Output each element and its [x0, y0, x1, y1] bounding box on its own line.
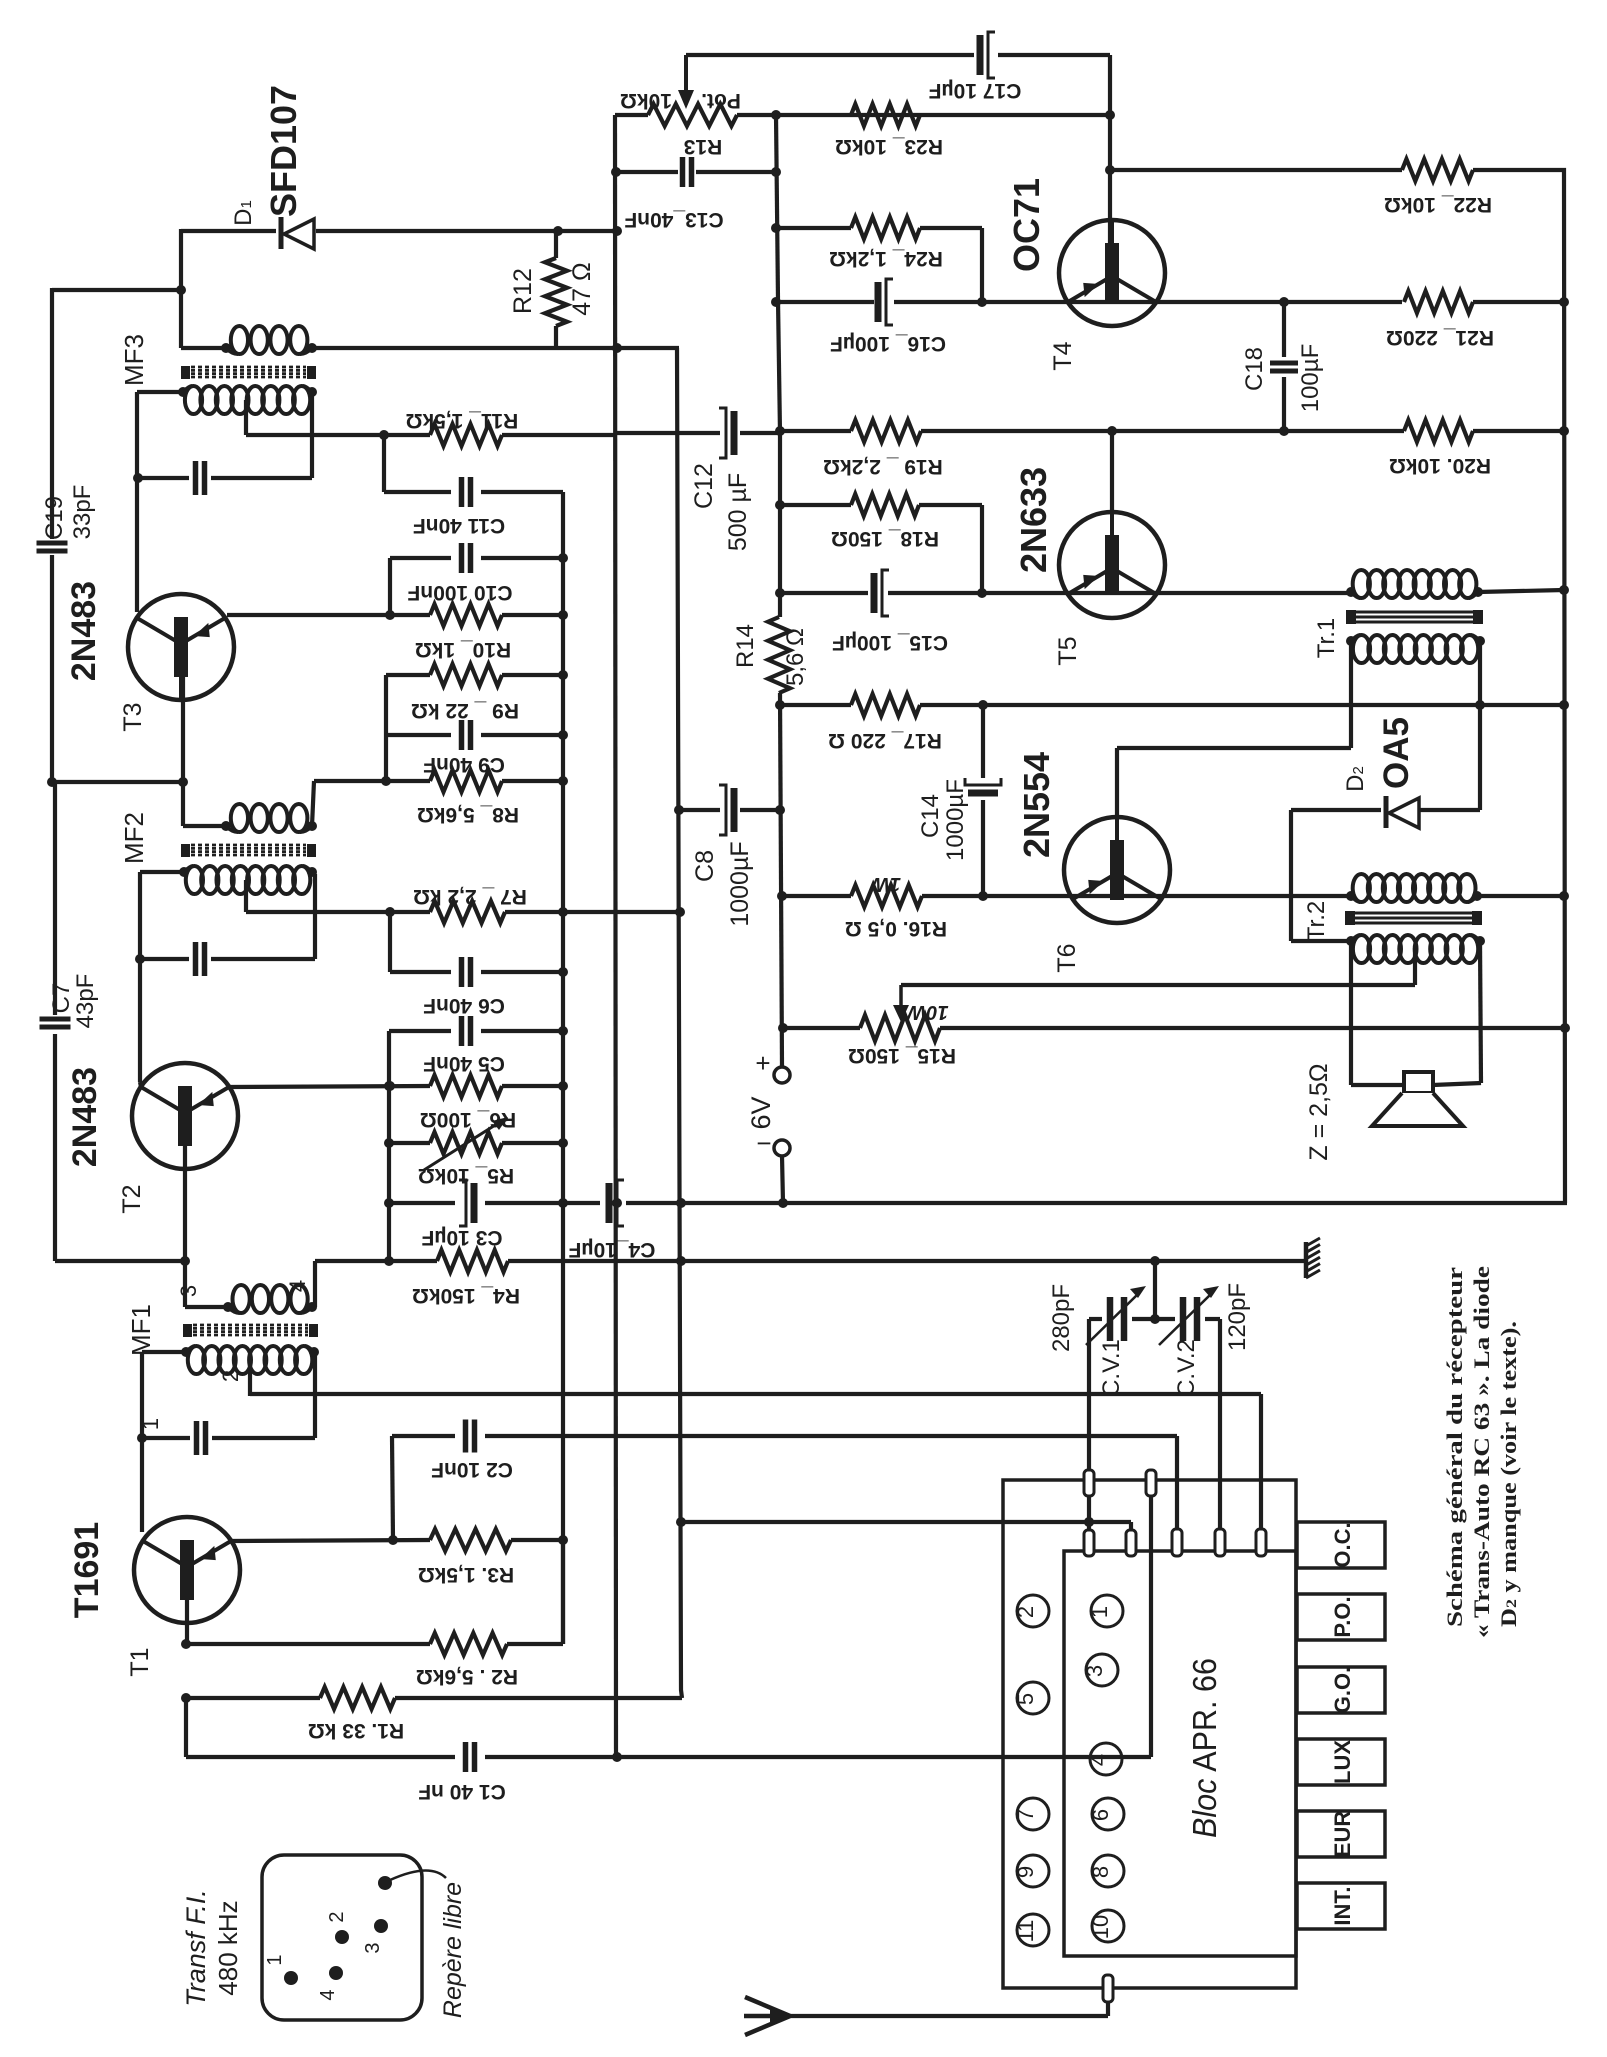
wire C11 bracket — [384, 435, 563, 492]
wire MF3 primary out — [312, 343, 679, 353]
transformer Tr2 label — [1303, 901, 1330, 941]
svg-text:10kΩ: 10kΩ — [620, 89, 672, 112]
wire y1396 — [250, 1394, 1261, 1530]
wire MF2 prim left — [183, 824, 226, 828]
label C1 — [418, 1780, 506, 1803]
label T6 — [1053, 943, 1081, 972]
label C14 — [917, 779, 969, 861]
wire R16 row — [782, 894, 1351, 898]
svg-text:4: 4 — [1086, 1754, 1111, 1766]
svg-text:R3. 1,5kΩ: R3. 1,5kΩ — [418, 1563, 514, 1586]
wire pot row right — [737, 110, 1110, 120]
svg-text:R23_ 10kΩ: R23_ 10kΩ — [835, 135, 943, 158]
bloc inner box — [1064, 1551, 1296, 1956]
wire R24 row — [771, 223, 982, 302]
capacitor C8 — [719, 785, 734, 835]
svg-text:Tr.1: Tr.1 — [1313, 618, 1340, 658]
wire C7 top — [47, 777, 57, 1015]
wire bus x781 mid — [775, 693, 788, 1067]
transf fi box — [262, 1855, 422, 2020]
wire R3 row — [230, 1535, 563, 1545]
wire MF1 sec left — [137, 1352, 186, 1532]
label C15 — [832, 631, 948, 654]
svg-text:R17_ 220 Ω: R17_ 220 Ω — [828, 729, 942, 752]
label C12 — [690, 463, 752, 551]
svg-text:LUX: LUX — [1330, 1740, 1355, 1784]
svg-text:6: 6 — [1088, 1809, 1113, 1821]
wire R18 row — [780, 505, 982, 593]
transformer MF3 label — [119, 334, 149, 386]
resistor R1 — [320, 1687, 395, 1709]
wire MF3 cap row — [137, 393, 312, 478]
wire CV1 down — [1084, 1319, 1094, 1551]
wire C19 column lower — [50, 555, 54, 782]
resistor R3 — [430, 1529, 511, 1551]
label R23 — [835, 135, 943, 158]
svg-text:R18_ 150Ω: R18_ 150Ω — [831, 527, 939, 550]
svg-text:2N483: 2N483 — [65, 581, 103, 681]
wire C10 row — [390, 558, 563, 615]
label Pot — [620, 89, 741, 112]
svg-text:9: 9 — [1013, 1866, 1038, 1878]
wire C9 row — [386, 733, 563, 737]
label D1 — [230, 200, 257, 226]
wire D2 branch — [1478, 705, 1482, 810]
wire Tr1 sec left — [1349, 641, 1353, 748]
svg-text:R19 _ 2,2kΩ: R19 _ 2,2kΩ — [823, 455, 943, 478]
wire R3 to C2 — [392, 1436, 393, 1540]
capacitor C16 — [878, 279, 893, 325]
resistor R11 — [430, 424, 502, 446]
wire MF1 prim left — [185, 1305, 228, 1309]
wire R12 top lead — [554, 231, 558, 258]
resistor R16 — [851, 885, 922, 907]
transformer Tr1 secondary — [1346, 635, 1485, 663]
svg-text:−: − — [756, 1128, 771, 1158]
wire T1 base — [185, 1600, 189, 1644]
speaker — [1372, 1072, 1463, 1126]
transformer Tr1 label — [1313, 618, 1340, 658]
label R16 1W — [869, 873, 901, 895]
resistor R12 — [545, 258, 567, 326]
bloc pin b — [1146, 1470, 1156, 1496]
svg-text:2N633: 2N633 — [1013, 467, 1054, 573]
wire R11 row — [246, 430, 616, 440]
wire MF3 sec left — [137, 390, 183, 394]
svg-text:2: 2 — [218, 1370, 243, 1382]
svg-text:C17 10µF: C17 10µF — [929, 79, 1022, 102]
wire bus y1203 — [389, 1198, 1567, 1208]
wire C8 row — [679, 808, 780, 812]
transistor T2 — [132, 1063, 238, 1169]
capacitor C3 — [459, 1180, 474, 1226]
label 2N554 — [1016, 752, 1057, 858]
transf pin5 — [378, 1870, 446, 1890]
label T4 — [1049, 341, 1077, 370]
transformer MF2 core — [181, 844, 316, 857]
switch LUX — [1297, 1739, 1385, 1785]
resistor R15 — [860, 1015, 940, 1041]
svg-text:100µF: 100µF — [1297, 344, 1324, 413]
svg-text:R9 _ 22 kΩ: R9 _ 22 kΩ — [411, 699, 519, 722]
wire speaker left — [1351, 941, 1404, 1085]
svg-text:6V: 6V — [746, 1096, 776, 1129]
svg-text:R4_ 150kΩ: R4_ 150kΩ — [412, 1284, 520, 1307]
svg-text:+: + — [755, 1048, 770, 1078]
svg-text:R13: R13 — [684, 135, 723, 158]
svg-text:500 µF: 500 µF — [724, 473, 752, 551]
svg-text:Z = 2,5Ω: Z = 2,5Ω — [1305, 1063, 1333, 1160]
svg-text:280pF: 280pF — [1048, 1284, 1075, 1352]
wire D2 row — [1291, 810, 1480, 941]
wire y782 link — [52, 780, 183, 784]
svg-text:T1691: T1691 — [68, 1522, 106, 1618]
svg-text:T3: T3 — [119, 702, 147, 731]
svg-text:1: 1 — [264, 1954, 286, 1965]
capacitor C5 — [462, 1016, 471, 1046]
label R12 — [509, 262, 596, 315]
wire D1 row — [181, 229, 615, 233]
wire Tr1 prim right — [1478, 590, 1564, 592]
transistor T3 — [128, 594, 234, 700]
svg-text:C14: C14 — [917, 794, 944, 838]
wire pot wiper — [678, 55, 694, 109]
svg-text:C2 10nF: C2 10nF — [431, 1458, 513, 1481]
svg-text:C15_ 100µF: C15_ 100µF — [832, 631, 948, 654]
capacitor C2 — [466, 1420, 475, 1453]
wire gnd row — [315, 1256, 1307, 1266]
wire tap to R15 — [893, 985, 1415, 1022]
resistor R14 — [768, 617, 790, 693]
label C6 — [423, 994, 505, 1017]
label R21 — [1386, 326, 1494, 349]
transformer MF1 label — [126, 1304, 156, 1356]
wire MF1 prim right — [312, 1261, 315, 1307]
switch G.O. — [1297, 1667, 1385, 1713]
svg-text:T1: T1 — [126, 1647, 154, 1676]
svg-text:47 Ω: 47 Ω — [568, 262, 596, 315]
svg-text:O.C.: O.C. — [1330, 1522, 1355, 1567]
capacitor C18 — [1270, 363, 1298, 371]
wire CV mid up — [1153, 1261, 1157, 1319]
svg-text:1000µF: 1000µF — [726, 841, 754, 926]
svg-text:5: 5 — [1013, 1693, 1038, 1705]
battery 6V plus — [755, 1048, 790, 1083]
wire antenna row — [790, 2002, 1108, 2016]
resistor R4 — [437, 1250, 508, 1272]
svg-text:Repère libre: Repère libre — [439, 1882, 467, 2018]
wire MF2 cap row — [140, 874, 315, 959]
capacitor C4 — [609, 1180, 624, 1226]
svg-text:11: 11 — [1013, 1920, 1038, 1943]
label R14 — [732, 624, 809, 686]
svg-text:4: 4 — [317, 1989, 339, 2000]
svg-text:5,6 Ω: 5,6 Ω — [782, 628, 809, 686]
label T1 — [126, 1647, 154, 1676]
label R15 — [848, 1044, 956, 1067]
label T5 — [1054, 636, 1082, 665]
wire R8 row — [314, 776, 563, 786]
svg-text:SFD107: SFD107 — [263, 85, 304, 217]
transformer MF3 core — [181, 366, 316, 379]
label R11 — [406, 409, 519, 432]
label CV1 — [1098, 1339, 1125, 1397]
transformer MF1 core — [183, 1324, 318, 1337]
svg-text:120pF: 120pF — [1224, 1283, 1251, 1351]
wire T2 base — [180, 1146, 190, 1307]
bloc pin f — [1215, 1529, 1225, 1556]
svg-text:Tr.2: Tr.2 — [1303, 901, 1330, 941]
transformer MF1 secondary — [181, 1346, 319, 1374]
svg-text:OA5: OA5 — [1377, 717, 1416, 789]
label T3 — [119, 702, 147, 731]
bloc pin a — [1084, 1470, 1094, 1496]
wire Tr1 sec right — [1478, 641, 1482, 705]
resistor R22 — [1402, 159, 1473, 181]
label 2N483 T2 — [66, 1067, 104, 1167]
svg-text:T4: T4 — [1049, 341, 1077, 370]
label C18 — [1241, 344, 1324, 413]
wire MF1 sec tap — [248, 1360, 252, 1396]
wire R7 row — [246, 907, 680, 917]
label R9 — [411, 699, 519, 722]
wire bus x616 — [611, 115, 622, 1762]
caption line2 — [1469, 1266, 1494, 1638]
svg-text:R8_ 5,6kΩ: R8_ 5,6kΩ — [417, 803, 519, 826]
label R22 — [1384, 193, 1492, 216]
resistor R21 — [1404, 291, 1473, 313]
bloc contact 3 — [1082, 1654, 1118, 1686]
label C16 — [830, 332, 946, 355]
capacitor MF2 tuning — [196, 942, 205, 976]
svg-text:P.O.: P.O. — [1330, 1596, 1355, 1637]
capacitor C17 — [980, 32, 995, 78]
resistor R2 — [430, 1633, 507, 1655]
transformer MF1 primary — [223, 1285, 317, 1313]
label R19 — [823, 455, 943, 478]
label R18 — [831, 527, 939, 550]
label C3 — [421, 1226, 502, 1249]
wire speaker right — [1433, 941, 1481, 1085]
svg-text:3: 3 — [362, 1942, 384, 1953]
svg-text:Transf F.I.: Transf F.I. — [181, 1889, 211, 2007]
label 2N633 — [1013, 467, 1054, 573]
capacitor C13 — [683, 157, 692, 187]
wire D1 left drop — [181, 229, 226, 348]
transistor T6 — [1064, 817, 1170, 923]
resistor R8 — [430, 770, 502, 792]
svg-text:2: 2 — [326, 1911, 348, 1922]
label R10 — [415, 638, 511, 661]
label R7 — [413, 885, 527, 908]
wire MF2 sec tap — [244, 880, 248, 912]
capacitor MF1 tuning — [197, 1421, 206, 1455]
switch P.O. — [1297, 1594, 1385, 1640]
transf pin2 — [326, 1911, 349, 1944]
svg-text:T6: T6 — [1053, 943, 1081, 972]
switch O.C. — [1297, 1522, 1385, 1568]
wire R21 right — [1473, 300, 1564, 304]
svg-text:480 kHz: 480 kHz — [213, 1900, 243, 1995]
label MF1 pin1 — [138, 1418, 163, 1430]
wire Tr2 sec tap — [1413, 948, 1417, 985]
svg-text:MF3: MF3 — [119, 334, 149, 386]
wire R22 row — [1110, 168, 1402, 172]
resistor R17 — [851, 694, 920, 716]
wire R12 bottom lead — [554, 326, 558, 348]
label R8 — [417, 803, 519, 826]
svg-text:C4_10µF: C4_10µF — [568, 1238, 655, 1261]
transformer Tr2 primary — [1346, 874, 1482, 902]
capacitor C11 — [462, 477, 471, 507]
label R24 — [829, 247, 943, 270]
bloc contact 2 — [1013, 1595, 1049, 1627]
resistor R10 — [430, 604, 502, 626]
svg-text:C18: C18 — [1241, 347, 1268, 391]
label R5 — [418, 1164, 514, 1187]
svg-text:1000µF: 1000µF — [942, 779, 969, 861]
svg-text:10: 10 — [1088, 1915, 1113, 1939]
svg-text:C3 10µF: C3 10µF — [421, 1226, 502, 1249]
svg-text:3: 3 — [176, 1285, 201, 1297]
svg-text:1: 1 — [138, 1418, 163, 1430]
svg-text:MF1: MF1 — [126, 1304, 156, 1356]
wire CV2 down — [1218, 1319, 1222, 1551]
svg-text:3: 3 — [1082, 1665, 1107, 1677]
wire R10 row — [227, 610, 563, 620]
battery 6V minus — [756, 1128, 790, 1158]
svg-text:2N554: 2N554 — [1016, 752, 1057, 858]
wire C2 row — [392, 1436, 1177, 1530]
bloc contact 9 — [1013, 1855, 1049, 1887]
svg-text:1: 1 — [1087, 1606, 1112, 1618]
svg-text:C13_40nF: C13_40nF — [624, 208, 723, 231]
bloc contact 10 — [1088, 1910, 1124, 1942]
capacitor C10 — [462, 543, 471, 573]
bloc pin c — [1084, 1530, 1094, 1556]
resistor R24 — [851, 217, 920, 239]
svg-text:33pF: 33pF — [69, 485, 96, 540]
wire R15 row — [783, 1026, 1565, 1030]
bloc contact 1 — [1087, 1595, 1123, 1627]
wire C16 row — [771, 297, 1402, 307]
label Transf FI — [181, 1889, 243, 2007]
label 2N483 T3 — [65, 581, 103, 681]
bloc contact 8 — [1088, 1855, 1124, 1887]
wire C6 bracket — [390, 912, 563, 972]
potentiometer R13 — [648, 104, 737, 126]
label 120pF — [1224, 1283, 1251, 1351]
label C17 — [929, 79, 1022, 102]
label C10 — [407, 581, 512, 604]
transf pin1 — [264, 1954, 298, 1985]
transformer MF3 primary — [221, 326, 317, 354]
label C5 — [423, 1052, 505, 1075]
svg-text:R1. 33 kΩ: R1. 33 kΩ — [308, 1719, 404, 1742]
label C13 — [624, 208, 723, 231]
capacitor C15 — [874, 570, 889, 616]
capacitor C12 — [719, 408, 734, 458]
transformer MF3 secondary — [178, 386, 317, 414]
svg-text:C8: C8 — [691, 850, 719, 882]
wire C12 row — [616, 431, 780, 435]
svg-text:R2 . 5,6kΩ: R2 . 5,6kΩ — [416, 1665, 518, 1688]
label C2 — [431, 1458, 513, 1481]
label C11 — [413, 514, 505, 537]
label C19 — [41, 485, 96, 540]
transformer MF2 label — [119, 812, 149, 864]
transf pin4 — [317, 1966, 343, 2001]
wire T2 out row — [229, 1081, 563, 1091]
wire pot row left — [615, 113, 648, 117]
label R6 — [420, 1108, 516, 1131]
bloc outer box — [1003, 1480, 1296, 1988]
resistor R7 — [430, 901, 505, 923]
bloc pin bottom — [1103, 1975, 1113, 2002]
label MF1 pin2 — [218, 1370, 243, 1382]
transformer MF2 primary — [221, 804, 317, 832]
svg-text:C.V.1: C.V.1 — [1098, 1339, 1125, 1397]
wire C1 row — [186, 1496, 1151, 1757]
label R2 — [416, 1665, 518, 1688]
wire gnd left seg — [55, 1034, 185, 1261]
capacitor C1 — [466, 1742, 475, 1772]
svg-text:2N483: 2N483 — [66, 1067, 104, 1167]
svg-text:INT.: INT. — [1330, 1886, 1355, 1925]
wire MF2 sec left — [135, 872, 184, 1082]
resistor R9 — [430, 664, 502, 686]
svg-text:8: 8 — [1088, 1866, 1113, 1878]
label R17 — [828, 729, 942, 752]
resistor R23 — [851, 104, 920, 126]
resistor R6 — [430, 1075, 502, 1097]
wire R19 row — [775, 426, 1404, 436]
svg-text:Bloc APR. 66: Bloc APR. 66 — [1186, 1658, 1223, 1838]
wire C19 top link — [52, 285, 186, 295]
transformer Tr2 secondary — [1346, 935, 1485, 963]
label D2 — [1342, 766, 1369, 792]
caption line1 — [1442, 1267, 1467, 1627]
bloc pin d — [1126, 1530, 1136, 1556]
variable capacitor CV1 — [1086, 1286, 1146, 1345]
svg-text:MF2: MF2 — [119, 812, 149, 864]
transformer Tr1 core — [1346, 610, 1483, 624]
switch INT. — [1297, 1883, 1385, 1929]
svg-text:C19: C19 — [41, 496, 68, 540]
wire C14 branch — [978, 700, 988, 901]
transistor T1 — [134, 1517, 240, 1623]
label MF1 pin3 — [176, 1285, 201, 1297]
wire to bloc y1522 — [682, 1517, 1131, 1530]
transformer MF2 secondary — [179, 866, 317, 894]
bloc pin e — [1172, 1529, 1182, 1556]
label C9 — [423, 753, 505, 776]
transformer Tr2 core — [1345, 911, 1482, 925]
bloc pin g — [1256, 1529, 1266, 1556]
label R1 — [308, 1719, 404, 1742]
capacitor C6 — [462, 957, 471, 987]
svg-text:R20. 10kΩ: R20. 10kΩ — [1389, 454, 1491, 477]
svg-text:43pF: 43pF — [72, 974, 99, 1029]
wire C19 column upper — [50, 288, 54, 539]
resistor R18 — [851, 494, 919, 516]
resistor R5 — [430, 1132, 502, 1154]
capacitor MF3 tuning — [196, 461, 205, 495]
wire bus x781 lower — [782, 1156, 783, 1203]
variable capacitor CV2 — [1159, 1286, 1219, 1345]
wire Tr2 sec left link — [1291, 939, 1351, 943]
bloc contact 5 — [1013, 1682, 1049, 1714]
